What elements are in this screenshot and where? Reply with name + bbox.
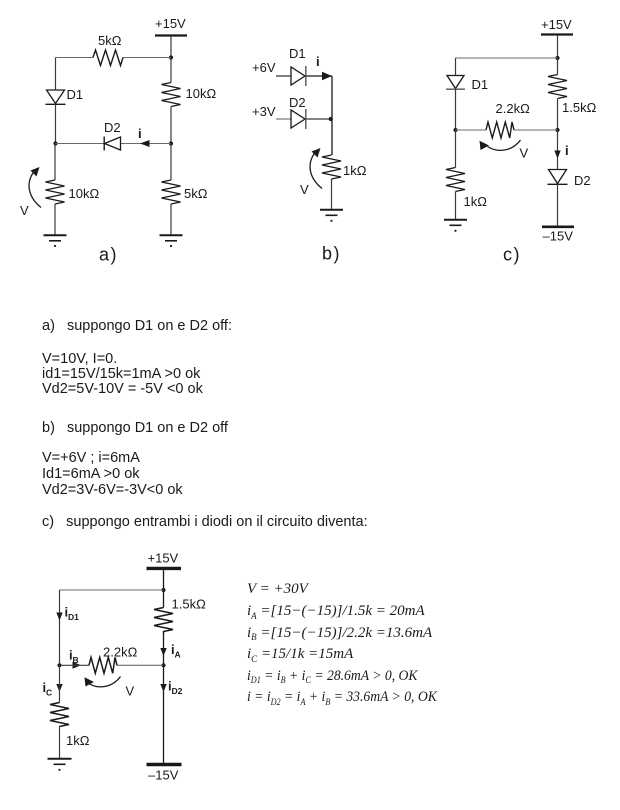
wire D1 cathode to node A2 [55,104,57,143]
svg-text:10kΩ: 10kΩ [186,86,217,101]
power -15V supply D [147,765,182,783]
diode D1 (circuit c) [446,76,488,93]
svg-text:+3V: +3V [252,104,276,119]
wire node D1 down to 1.5k [163,590,165,608]
svg-text:V: V [126,684,135,699]
svg-text:i: i [138,126,142,141]
diode D2 [104,120,121,151]
svg-text:D1: D1 [472,77,489,92]
svg-text:+15V: +15V [541,17,572,32]
svg-text:+15V: +15V [155,16,186,31]
node A1 junction [169,55,173,59]
ground (circuit b) [320,210,343,222]
svg-text:D2: D2 [289,95,306,110]
diode D1 (circuit b) [289,46,306,86]
wire resistor to ground (circuit b) [331,179,333,210]
resistor 10k (left lower) [46,180,100,204]
svg-text:i: i [316,54,320,69]
svg-text:D2: D2 [172,686,183,696]
svg-text:D1: D1 [68,612,79,622]
svg-text:B: B [73,655,79,665]
svg-text:–15V: –15V [543,229,574,244]
resistor 5k (top) [93,33,123,66]
svg-text:+6V: +6V [252,60,276,75]
wire top horizontal right segment [123,57,171,59]
formula iB [247,625,432,642]
wire from +6V to diode D1b [276,75,291,77]
wire top horizontal left segment [56,57,94,59]
wire node A2 down to 10k [54,144,56,181]
power +15V supply D [147,551,182,569]
resistor 1k (circuit b) [322,155,367,179]
node C3 junction [555,128,559,132]
voltage arrow V (bottom circuit) [85,677,135,699]
svg-text:A: A [175,650,181,660]
wire right vertical from node A1 to 10k [170,58,172,83]
svg-text:c): c) [503,245,521,265]
wire 1k to ground (circuit c) [455,192,457,220]
wire node C1 down to 1.5k [557,58,559,75]
svg-text:+15V: +15V [148,551,179,566]
voltage arrow V (circuit b) [300,148,322,197]
wire node A3 down to 5k [170,144,172,181]
wire from +15V bar to node A1 [170,36,172,58]
node D1 junction [161,588,165,592]
resistor 2.2k (bottom circuit) [89,645,138,674]
wire node C2 down to 1k [455,130,457,168]
wire from +3V to diode D2b [276,118,291,120]
svg-text:C: C [46,688,52,698]
wire left vertical to diode D1 [55,58,57,91]
svg-text:2.2kΩ: 2.2kΩ [496,101,531,116]
solution text step a [42,318,232,335]
resistor 2.2k (circuit c) [486,101,530,138]
power +15V supply A [155,16,187,36]
node B1 junction [329,117,333,121]
wire +15V bar to node D1 [163,569,165,590]
svg-text:10kΩ: 10kΩ [69,186,100,201]
svg-text:2.2kΩ: 2.2kΩ [103,645,138,660]
ground (circuit a left) [44,235,67,247]
svg-text:b): b) [322,244,341,264]
wire left vertical upper (bottom circuit) [59,590,61,665]
node A3 junction [169,141,173,145]
formula iD2 [247,689,437,706]
current arrow iB [69,648,81,669]
diode D2 (circuit c) [548,170,591,189]
power -15V supply C [542,227,574,244]
current arrow i (circuit c) [554,143,568,159]
node D3 junction [161,663,165,667]
svg-text:1kΩ: 1kΩ [343,163,367,178]
wire D1c cathode to node C2 [455,89,457,130]
svg-text:D2: D2 [574,173,591,188]
current arrow iC [43,680,63,698]
wire top horizontal (circuit c) [456,57,558,59]
diode D2 (circuit b) [289,95,306,129]
ground (circuit c) [444,220,467,232]
resistor 1k (bottom circuit) [50,703,90,749]
svg-text:D1: D1 [67,87,84,102]
wire 10k to ground [54,204,56,235]
wire 5k to ground [170,204,172,235]
voltage arrow V (circuit c) [480,140,529,161]
node C1 junction [555,56,559,60]
wire middle horizontal left (bottom circuit) [60,664,90,666]
wire left vertical to diode D1c [455,58,457,76]
svg-text:V: V [300,182,309,197]
wire node C3 to diode D2c [557,130,559,170]
wire 10k to node A3 [170,107,172,144]
wire middle horizontal right (bottom circuit) [117,664,164,666]
ground (bottom circuit) [48,759,72,771]
power +15V supply C [541,17,573,35]
svg-text:1.5kΩ: 1.5kΩ [562,100,597,115]
resistor 1k (circuit c) [446,168,487,210]
formula iA [247,603,425,620]
svg-text:–15V: –15V [148,768,179,783]
svg-text:5kΩ: 5kΩ [184,186,208,201]
wire diode D2b to node B1 [306,118,332,120]
wire node D3 down to -15V bar [163,665,165,763]
formula iD1 [247,668,417,685]
solution text step b [42,420,228,437]
svg-text:D2: D2 [104,120,121,135]
resistor 5k (right lower) [162,180,208,204]
wire node D2 down to 1k [59,665,61,702]
svg-text:1kΩ: 1kΩ [66,733,90,748]
svg-text:V: V [520,146,529,161]
current arrow iD2 [160,679,182,697]
node C2 junction [453,128,457,132]
resistor 10k (right upper) [162,83,217,107]
node D2 junction [57,663,61,667]
svg-text:D1: D1 [289,46,306,61]
current arrow i (circuit a) [138,126,150,147]
wire 1k to ground (bottom circuit) [59,727,61,759]
voltage arrow V (circuit a) [20,167,41,218]
node A2 junction [53,141,57,145]
solution text step c [42,514,368,531]
ground (circuit a right) [160,235,183,247]
wire 1.5k to node D2 with current arrow iA [160,635,180,666]
resistor 1.5k (circuit c) [548,75,597,116]
formula iC [247,646,353,663]
wire diode D1b to vertical bus with current arrow i [306,54,332,80]
svg-text:5kΩ: 5kΩ [98,33,122,48]
wire middle horizontal right segment [121,143,172,145]
formula V total [247,581,308,598]
svg-text:V: V [20,203,29,218]
wire top horizontal (bottom circuit) [60,589,164,591]
wire +15V bar to node C1 [557,35,559,58]
resistor 1.5k (bottom circuit) [154,597,206,635]
svg-text:1.5kΩ: 1.5kΩ [172,597,207,612]
current arrow iD1 [56,605,79,623]
svg-text:1kΩ: 1kΩ [464,194,488,209]
wire D2c cathode to -15V bar [557,184,559,226]
wire vertical bus (circuit b) [331,76,333,155]
diode D1 [46,87,84,104]
svg-text:i: i [565,143,569,158]
svg-text:a): a) [99,245,118,265]
wire middle horizontal left segment (circuit c) [456,129,487,131]
wire 1.5k to node C3 [557,99,559,131]
wire middle horizontal right segment (circuit c) [514,129,558,131]
wire middle horizontal left segment [56,143,105,145]
